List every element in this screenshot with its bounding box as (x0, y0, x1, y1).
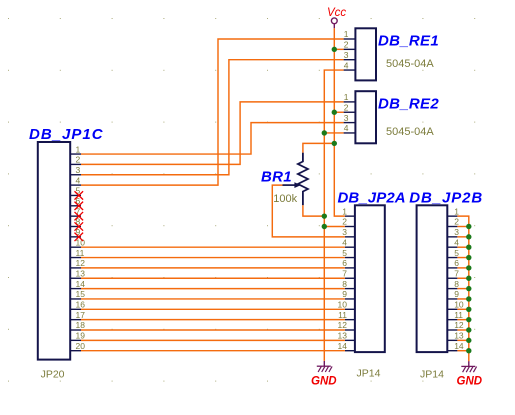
JP2B pin 13 (447, 331, 464, 341)
wire Vcc to BR1 top (303, 143, 334, 152)
wire JP1C pin11 to JP2A pin5 (81, 257, 345, 259)
wire JP1C pin19 to JP2A pin13 (81, 339, 345, 341)
wire JP1C pin14 to JP2A pin8 (81, 288, 345, 290)
wire JP2B pin3 to ground rail (457, 236, 468, 238)
svg-text:1: 1 (344, 29, 349, 39)
RE1 pin 3 (344, 50, 356, 60)
svg-text:JP20: JP20 (41, 369, 65, 381)
svg-text:DB_RE1: DB_RE1 (378, 32, 439, 49)
svg-text:4: 4 (344, 60, 349, 70)
junction dot JP2B pin9 (466, 296, 471, 301)
wire GND rail to JP2A pin2 (324, 226, 345, 228)
JP2B pin 9 (447, 289, 459, 299)
power symbol Vcc (331, 18, 337, 28)
JP1C pin 17 (70, 310, 85, 320)
potentiometer BR1 100k (zigzag body and leads) (298, 153, 308, 206)
wire JP1C pin4 to RE1 pin1 (81, 39, 344, 185)
JP2B pin 6 (447, 258, 459, 268)
wire JP2B pin9 to ground rail (457, 298, 468, 300)
no-connect X on JP1C pin 7 (75, 212, 84, 220)
svg-text:100k: 100k (273, 193, 297, 205)
wire GND rail to RE2 pin4 (324, 132, 343, 134)
svg-text:1: 1 (76, 144, 81, 154)
svg-text:3: 3 (342, 227, 347, 237)
wire JP2B pin8 to ground rail (457, 288, 468, 290)
svg-text:14: 14 (454, 341, 464, 351)
JP2B pin 14 (447, 341, 464, 351)
wire JP1C pin1 to RE2 pin3 (81, 123, 344, 154)
no-connect X on JP1C pin 8 (75, 222, 84, 230)
svg-text:2: 2 (342, 217, 347, 227)
wire Vcc to RE2 pin2 (334, 111, 343, 113)
JP2A pin 1 (342, 206, 355, 216)
svg-text:4: 4 (344, 123, 349, 133)
svg-text:5045-04A: 5045-04A (386, 126, 434, 138)
svg-text:6: 6 (454, 258, 459, 268)
wire JP1C pin17 to JP2A pin11 (81, 319, 345, 321)
svg-text:11: 11 (338, 310, 347, 320)
svg-text:GND: GND (311, 375, 337, 387)
junction dot JP2B pin7 (466, 276, 471, 281)
wire JP2B pin14 to ground rail (457, 350, 468, 352)
svg-text:13: 13 (76, 268, 86, 278)
wire JP1C pin3 to RE1 pin3 (81, 60, 344, 175)
svg-text:12: 12 (76, 258, 86, 268)
junction dot JP2B pin12 (466, 327, 471, 332)
svg-text:DB_JP1C: DB_JP1C (29, 126, 104, 143)
junction dot GND/RE2 pin4 (322, 130, 327, 135)
wire JP2B pin2 to ground rail (457, 226, 468, 228)
JP1C pin 19 (70, 331, 85, 341)
svg-text:11: 11 (76, 248, 85, 258)
JP2A pin 8 (342, 279, 355, 289)
wire BR1 wiper to JP2A pin3 (272, 185, 345, 237)
svg-text:10: 10 (338, 300, 348, 310)
JP2B pin 2 (447, 217, 459, 227)
svg-text:4: 4 (76, 175, 81, 185)
svg-text:2: 2 (76, 155, 81, 165)
junction dot GND/BR1 bottom (322, 213, 327, 218)
wire JP1C pin10 to JP2A pin4 (81, 246, 345, 248)
svg-text:13: 13 (454, 331, 464, 341)
svg-text:BR1: BR1 (261, 168, 292, 185)
JP2A pin 5 (342, 248, 355, 258)
svg-text:2: 2 (344, 102, 349, 112)
RE2 pin 1 (344, 92, 356, 102)
junction dot Vcc/RE2 pin2 (332, 110, 337, 115)
JP1C pin 15 (70, 289, 85, 299)
JP1C pin 1 (70, 144, 81, 154)
junction dot JP2B pin13 (466, 338, 471, 343)
junction dot JP2B pin6 (466, 265, 471, 270)
svg-text:2: 2 (344, 40, 349, 50)
BR1 wiper arrow (283, 182, 301, 188)
wire BR1 bottom to GND rail (303, 205, 324, 216)
wire JP2B pin1 to ground rail (corner) (457, 216, 468, 361)
wire Vcc to RE1 pin2 (334, 48, 343, 50)
JP1C pin 13 (70, 268, 85, 278)
relay DB_RE1 (5045-04A) body (355, 28, 376, 80)
svg-text:11: 11 (454, 310, 463, 320)
svg-text:19: 19 (76, 331, 86, 341)
junction dot JP2B pin8 (466, 286, 471, 291)
junction dot Vcc/RE1 pin2 (332, 47, 337, 52)
svg-text:5045-04A: 5045-04A (386, 58, 434, 70)
svg-text:DB_JP2A: DB_JP2A (338, 189, 406, 206)
svg-text:8: 8 (454, 279, 459, 289)
svg-text:JP14: JP14 (420, 369, 444, 381)
svg-text:JP14: JP14 (357, 367, 381, 379)
svg-text:13: 13 (338, 331, 348, 341)
JP1C pin 6 (70, 196, 81, 206)
junction dot JP2B pin3 (466, 234, 471, 239)
wire JP1C pin12 to JP2A pin6 (81, 267, 345, 269)
JP1C pin 4 (70, 175, 81, 185)
svg-text:6: 6 (342, 258, 347, 268)
svg-text:9: 9 (342, 289, 347, 299)
junction dot JP2B pin2 (466, 224, 471, 229)
JP2B pin 3 (447, 227, 459, 237)
junction dot JP2B pin5 (466, 255, 471, 260)
svg-text:1: 1 (344, 92, 349, 102)
JP2A pin 4 (342, 237, 355, 247)
svg-text:3: 3 (454, 227, 459, 237)
svg-text:3: 3 (344, 113, 349, 123)
JP2B pin 5 (447, 248, 459, 258)
JP2A pin 2 (342, 217, 355, 227)
JP2B pin 7 (447, 268, 459, 278)
JP1C pin 9 (70, 227, 81, 237)
svg-text:4: 4 (454, 237, 459, 247)
JP1C pin 16 (70, 300, 85, 310)
wire JP1C pin2 to RE2 pin1 (81, 102, 344, 164)
svg-text:DB_RE2: DB_RE2 (378, 95, 439, 112)
wire JP2B pin4 to ground rail (457, 246, 468, 248)
JP1C pin 20 (70, 341, 85, 351)
svg-text:Vcc: Vcc (327, 7, 346, 19)
JP2A pin 6 (342, 258, 355, 268)
RE2 pin 2 (344, 102, 356, 112)
svg-text:18: 18 (76, 320, 86, 330)
JP2A pin 13 (338, 331, 355, 341)
JP2A pin 14 (338, 341, 355, 351)
JP2B pin 8 (447, 279, 459, 289)
svg-text:1: 1 (342, 206, 347, 216)
junction dot GND/JP2A pin2 (322, 224, 327, 229)
svg-text:3: 3 (344, 50, 349, 60)
wire JP1C pin18 to JP2A pin12 (81, 329, 345, 331)
svg-text:14: 14 (76, 279, 86, 289)
svg-text:GND: GND (457, 375, 483, 387)
JP1C pin 7 (70, 206, 81, 216)
wire JP1C pin20 to JP2A pin14 (81, 350, 345, 352)
JP2A pin 7 (342, 268, 355, 278)
svg-text:10: 10 (454, 300, 464, 310)
svg-text:2: 2 (454, 217, 459, 227)
svg-text:20: 20 (76, 341, 86, 351)
svg-text:9: 9 (454, 289, 459, 299)
svg-text:DB_JP2B: DB_JP2B (409, 189, 483, 206)
svg-text:14: 14 (338, 341, 348, 351)
junction dot JP2B pin11 (466, 317, 471, 322)
no-connect X on JP1C pin 5 (75, 191, 84, 199)
JP2A pin 10 (338, 300, 355, 310)
RE1 pin 1 (344, 29, 356, 39)
junction dot JP2B pin14 (466, 348, 471, 353)
ground symbol GND (right) (461, 361, 476, 372)
svg-text:12: 12 (454, 320, 464, 330)
svg-text:5: 5 (454, 248, 459, 258)
wire JP2B pin12 to ground rail (457, 329, 468, 331)
svg-text:3: 3 (76, 165, 81, 175)
svg-text:16: 16 (76, 300, 86, 310)
JP1C pin 18 (70, 320, 85, 330)
wire JP2B pin10 to ground rail (457, 308, 468, 310)
connector DB_JP2B (JP14) body (417, 205, 448, 352)
JP1C pin 8 (70, 217, 81, 227)
svg-text:4: 4 (342, 237, 347, 247)
JP2B pin 1 (447, 206, 459, 216)
JP2B pin 10 (447, 300, 464, 310)
ground symbol GND (center) (317, 361, 332, 372)
JP1C pin 5 (70, 186, 81, 196)
wire JP1C pin13 to JP2A pin7 (81, 277, 345, 279)
svg-text:1: 1 (454, 206, 459, 216)
wire JP2B pin6 to ground rail (457, 267, 468, 269)
JP1C pin 3 (70, 165, 81, 175)
svg-text:17: 17 (76, 310, 86, 320)
RE2 pin 3 (344, 113, 356, 123)
wire JP2B pin13 to ground rail (457, 339, 468, 341)
svg-text:7: 7 (454, 268, 459, 278)
JP2A pin 9 (342, 289, 355, 299)
JP1C pin 14 (70, 279, 85, 289)
RE1 pin 4 (344, 60, 356, 70)
JP1C pin 10 (70, 237, 85, 247)
junction dot Vcc/BR1 top (332, 141, 337, 146)
wire JP1C pin15 to JP2A pin9 (81, 298, 345, 300)
no-connect X on JP1C pin 6 (75, 202, 84, 210)
wire JP2B pin11 to ground rail (457, 319, 468, 321)
JP1C pin 12 (70, 258, 85, 268)
RE1 pin 2 (344, 40, 356, 50)
svg-text:12: 12 (338, 320, 348, 330)
wire GND rail vertical from RE1 pin4 down to ground (324, 70, 343, 361)
RE2 pin 4 (344, 123, 356, 133)
junction dot JP2B pin10 (466, 307, 471, 312)
junction dot JP2B pin4 (466, 245, 471, 250)
wire JP2B pin5 to ground rail (457, 257, 468, 259)
wire Vcc rail vertical down to JP2A pin1 (334, 28, 345, 216)
connector DB_JP2A (JP14) body (355, 205, 385, 352)
wire JP2B pin7 to ground rail (457, 277, 468, 279)
connector DB_JP1C (JP20) body (38, 142, 70, 360)
JP1C pin 2 (70, 155, 81, 165)
JP2A pin 12 (338, 320, 355, 330)
JP1C pin 11 (70, 248, 84, 258)
JP2B pin 12 (447, 320, 464, 330)
JP2B pin 4 (447, 237, 459, 247)
relay DB_RE2 (5045-04A) body (355, 91, 376, 143)
svg-text:5: 5 (342, 248, 347, 258)
no-connect X on JP1C pin 9 (75, 233, 84, 241)
JP2A pin 3 (342, 227, 355, 237)
svg-text:7: 7 (342, 268, 347, 278)
svg-text:8: 8 (342, 279, 347, 289)
JP2B pin 11 (447, 310, 463, 320)
svg-text:15: 15 (76, 289, 86, 299)
JP2A pin 11 (338, 310, 355, 320)
wire JP1C pin16 to JP2A pin10 (81, 308, 345, 310)
